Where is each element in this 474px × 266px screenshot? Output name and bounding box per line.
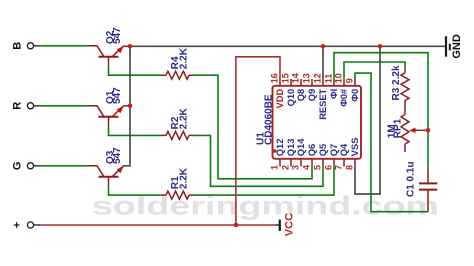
svg-text:4: 4 [302, 165, 312, 170]
svg-text:547: 547 [112, 147, 123, 164]
svg-text:13: 13 [302, 73, 312, 83]
svg-text:Q7: Q7 [329, 144, 339, 156]
svg-text:15: 15 [281, 73, 291, 83]
svg-text:C1 0.1u: C1 0.1u [405, 161, 416, 197]
svg-text:VSS: VSS [350, 138, 360, 157]
svg-text:R3 2.2k: R3 2.2k [391, 65, 402, 100]
svg-text:Q13: Q13 [286, 139, 296, 157]
svg-text:7: 7 [334, 165, 344, 170]
svg-text:3: 3 [291, 165, 301, 170]
svg-text:GND: GND [451, 34, 463, 59]
svg-text:Q9: Q9 [307, 89, 317, 101]
svg-text:2.2K: 2.2K [179, 47, 190, 69]
svg-text:9: 9 [345, 78, 355, 83]
svg-text:1: 1 [270, 165, 280, 170]
svg-text:B: B [12, 42, 24, 50]
svg-text:2.2K: 2.2K [179, 107, 190, 129]
svg-text:6: 6 [324, 165, 334, 170]
svg-text:Q10: Q10 [286, 89, 296, 107]
svg-text:Q6: Q6 [307, 144, 317, 156]
svg-text:2.2K: 2.2K [179, 167, 190, 189]
svg-text:Q5: Q5 [318, 144, 328, 156]
svg-text:12: 12 [313, 73, 323, 83]
svg-text:CD4060BE: CD4060BE [264, 94, 275, 145]
svg-text:8: 8 [345, 165, 355, 170]
svg-text:Q12: Q12 [275, 139, 285, 157]
svg-text:Φ0#: Φ0# [339, 88, 349, 107]
svg-text:G: G [12, 162, 24, 171]
svg-text:Q14: Q14 [296, 138, 306, 156]
svg-text:5: 5 [313, 165, 323, 170]
svg-text:Φ0: Φ0 [350, 89, 360, 102]
svg-text:2: 2 [281, 165, 291, 170]
svg-text:11: 11 [324, 74, 334, 84]
svg-text:RESET: RESET [318, 88, 328, 119]
svg-text:547: 547 [112, 87, 123, 104]
svg-text:10: 10 [334, 73, 344, 83]
svg-text:R: R [12, 102, 24, 110]
svg-text:+: + [12, 222, 24, 228]
svg-text:547: 547 [112, 27, 123, 44]
svg-text:VCC: VCC [283, 213, 295, 236]
svg-text:Q4: Q4 [339, 143, 349, 156]
svg-text:RP1: RP1 [393, 118, 404, 138]
svg-text:Q8: Q8 [296, 89, 306, 101]
svg-text:VDD: VDD [275, 89, 285, 109]
svg-text:14: 14 [291, 73, 301, 83]
svg-text:ΦI: ΦI [329, 89, 339, 99]
svg-text:16: 16 [270, 73, 280, 83]
